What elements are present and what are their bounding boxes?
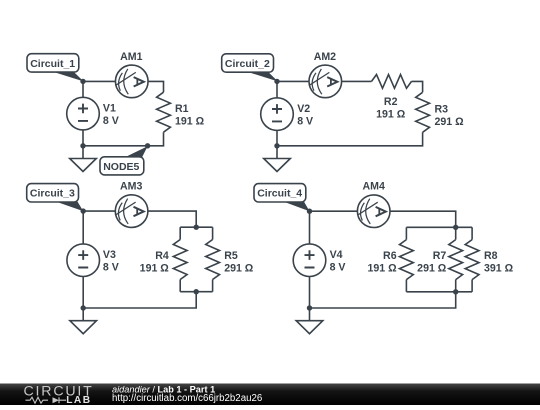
wire xyxy=(412,81,423,92)
node label Circuit_2 xyxy=(222,54,278,82)
svg-text:LAB: LAB xyxy=(66,395,91,405)
node label Circuit_4 xyxy=(254,184,310,212)
wire xyxy=(310,210,358,212)
svg-text:R2: R2 xyxy=(384,96,398,108)
svg-text:Circuit_1: Circuit_1 xyxy=(30,58,75,70)
svg-text:R7: R7 xyxy=(433,250,447,262)
svg-text:8 V: 8 V xyxy=(103,115,119,127)
svg-text:AM3: AM3 xyxy=(120,180,142,192)
junction xyxy=(307,305,312,310)
resistor R6 191 ohm xyxy=(367,227,413,291)
wire xyxy=(83,80,116,82)
svg-text:AM4: AM4 xyxy=(363,180,385,192)
voltage source V1 8 V xyxy=(67,97,119,130)
wire xyxy=(406,226,472,228)
svg-text:291 Ω: 291 Ω xyxy=(224,262,254,274)
junction xyxy=(194,289,199,294)
ammeter AM3 xyxy=(115,180,148,227)
svg-text:V2: V2 xyxy=(297,103,310,115)
ground xyxy=(264,146,291,172)
svg-text:391 Ω: 391 Ω xyxy=(484,262,514,274)
ground xyxy=(296,308,323,334)
resistor R1 191 ohm xyxy=(157,92,205,132)
node label Circuit_3 xyxy=(27,184,83,212)
resistor R8 391 ohm xyxy=(465,227,513,291)
ground xyxy=(70,146,97,172)
svg-text:AM2: AM2 xyxy=(314,51,336,63)
wire xyxy=(83,132,164,146)
wire xyxy=(276,81,278,97)
svg-text:291 Ω: 291 Ω xyxy=(417,262,447,274)
svg-text:R8: R8 xyxy=(484,250,498,262)
wire xyxy=(309,277,311,309)
svg-text:8 V: 8 V xyxy=(330,262,346,274)
junction xyxy=(81,305,86,310)
node label Circuit_1 xyxy=(27,54,84,82)
svg-text:NODE5: NODE5 xyxy=(103,161,139,173)
wire xyxy=(390,211,456,227)
svg-text:291 Ω: 291 Ω xyxy=(435,116,465,128)
ammeter AM2 xyxy=(309,51,342,98)
resistor R4 191 ohm xyxy=(140,227,187,292)
wire xyxy=(342,80,372,82)
wire xyxy=(82,211,84,244)
wire xyxy=(148,81,163,92)
svg-text:R5: R5 xyxy=(224,250,238,262)
svg-text:191 Ω: 191 Ω xyxy=(140,262,170,274)
voltage source V3 8 V xyxy=(67,244,119,277)
junction xyxy=(194,225,199,230)
svg-text:V4: V4 xyxy=(330,249,343,261)
junction xyxy=(81,208,86,213)
junction xyxy=(307,209,312,214)
wire xyxy=(180,291,212,293)
svg-text:V1: V1 xyxy=(103,103,116,115)
svg-text:Circuit_4: Circuit_4 xyxy=(257,188,302,200)
svg-text:Circuit_2: Circuit_2 xyxy=(225,58,270,70)
wire xyxy=(310,292,456,308)
svg-text:8 V: 8 V xyxy=(103,262,119,274)
wire xyxy=(82,277,84,309)
wire xyxy=(277,132,423,146)
wire xyxy=(406,291,472,293)
svg-text:R6: R6 xyxy=(383,250,397,262)
wire xyxy=(148,211,196,227)
svg-text:V3: V3 xyxy=(103,249,116,261)
ground xyxy=(70,308,97,334)
ammeter AM4 xyxy=(357,180,390,227)
junction xyxy=(274,79,279,84)
junction xyxy=(80,79,85,84)
wire xyxy=(276,130,278,145)
junction xyxy=(453,225,458,230)
svg-text:191 Ω: 191 Ω xyxy=(376,108,406,120)
svg-text:191 Ω: 191 Ω xyxy=(175,115,205,127)
ammeter AM1 xyxy=(115,51,148,98)
voltage source V2 8 V xyxy=(261,98,313,131)
CircuitLab logo xyxy=(24,384,94,407)
wire xyxy=(83,210,115,212)
resistor R2 191 ohm xyxy=(372,75,412,121)
svg-text:Circuit_3: Circuit_3 xyxy=(30,188,75,200)
svg-text:191 Ω: 191 Ω xyxy=(367,262,397,274)
svg-text:8 V: 8 V xyxy=(297,115,313,127)
junction xyxy=(145,143,150,148)
resistor R5 291 ohm xyxy=(206,227,254,292)
wire xyxy=(82,130,84,146)
wire xyxy=(309,211,311,244)
junction xyxy=(453,289,458,294)
svg-text:R1: R1 xyxy=(175,103,189,115)
junction xyxy=(274,143,279,148)
resistor R7 291 ohm xyxy=(417,227,462,291)
svg-text:R4: R4 xyxy=(155,250,169,262)
wire xyxy=(82,81,84,97)
node label NODE5 xyxy=(100,146,148,175)
junction xyxy=(80,143,85,148)
svg-text:R3: R3 xyxy=(435,103,449,115)
voltage source V4 8 V xyxy=(293,244,345,277)
wire xyxy=(180,226,212,228)
svg-text:http://circuitlab.com/c66jrb2b: http://circuitlab.com/c66jrb2b2au26 xyxy=(112,393,262,404)
svg-text:AM1: AM1 xyxy=(120,51,142,63)
wire xyxy=(83,292,196,308)
resistor R3 291 ohm xyxy=(416,92,464,132)
wire xyxy=(277,80,309,82)
